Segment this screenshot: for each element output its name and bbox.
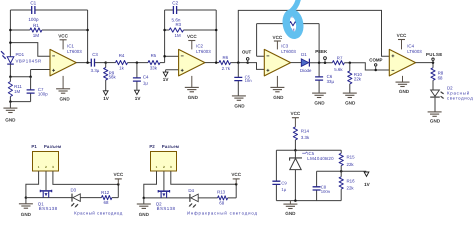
wire stage2 loop right vertical bbox=[215, 10, 217, 63]
connector P1 bbox=[31, 144, 61, 171]
svg-text:56k: 56k bbox=[109, 74, 117, 79]
svg-text:BSS138: BSS138 bbox=[39, 206, 58, 211]
ground IC5 block bbox=[283, 201, 297, 216]
capacitor C4 bbox=[133, 63, 149, 90]
resistor R11 bbox=[8, 77, 22, 102]
wire IC2 inverting input bbox=[165, 55, 179, 57]
shunt reference IC5 LM4040B20 bbox=[290, 150, 335, 200]
op-amp IC3 LT6003 bbox=[264, 44, 296, 76]
diode D1 bbox=[300, 52, 312, 73]
transistor Q2 BSS138 bbox=[156, 190, 176, 211]
wire D2 to ground bbox=[434, 98, 436, 112]
node: rail left bbox=[9, 75, 12, 78]
node: rail right / C7 top bbox=[29, 75, 32, 78]
node: COMP tap bbox=[374, 69, 377, 72]
ground stage1 input bbox=[3, 102, 17, 123]
svg-text:Разъем: Разъем bbox=[44, 144, 61, 149]
ground C5 bbox=[232, 96, 246, 109]
svg-text:LT6003: LT6003 bbox=[67, 49, 82, 54]
LED D3 bbox=[70, 187, 122, 215]
svg-text:C2: C2 bbox=[172, 0, 178, 5]
wire P2 pin2 to Q2 drain bbox=[163, 171, 165, 190]
svg-text:33k: 33k bbox=[150, 65, 158, 70]
svg-text:IC2: IC2 bbox=[196, 44, 203, 49]
ground IC2 bbox=[185, 76, 199, 100]
svg-text:VCC: VCC bbox=[58, 33, 68, 38]
node: OUT junction bbox=[246, 61, 249, 64]
capacitor C9 bbox=[272, 180, 287, 192]
wire IC1 non-inverting input bbox=[31, 70, 50, 77]
LED D2 bbox=[430, 86, 473, 101]
node: Q2 gate/ground junction bbox=[143, 197, 146, 200]
svg-text:GND: GND bbox=[285, 211, 296, 216]
wire D4 to R13 bbox=[198, 197, 217, 199]
power VCC IC4 bbox=[397, 33, 407, 50]
ground P1 bbox=[19, 198, 33, 217]
wire node-B rail bbox=[317, 170, 367, 172]
svg-text:100n: 100n bbox=[321, 189, 331, 194]
wire PD1 anode to rail bbox=[9, 64, 11, 77]
wire P1 pin2 to Q1 drain bbox=[45, 171, 47, 190]
power VCC IC5 block bbox=[291, 111, 301, 127]
wire R7 to COMP corner bbox=[344, 63, 389, 70]
wire node-A rail bbox=[276, 149, 341, 151]
resistor R7 bbox=[332, 56, 344, 72]
svg-text:1k: 1k bbox=[119, 65, 124, 70]
svg-text:1M: 1M bbox=[33, 33, 40, 38]
wire stage2 loop left vertical bbox=[164, 10, 166, 63]
wire stage1 feedback loop top (C1 branch) bbox=[10, 9, 87, 11]
svg-text:R1: R1 bbox=[33, 23, 39, 28]
svg-text:Красный светодиод: Красный светодиод bbox=[74, 210, 123, 215]
svg-text:R15: R15 bbox=[347, 155, 356, 160]
node: PEEK flag tap bbox=[324, 61, 327, 64]
node: R1 left junction bbox=[9, 29, 12, 32]
ground D2 bbox=[428, 112, 442, 124]
svg-text:VCC: VCC bbox=[291, 111, 301, 116]
svg-text:100p: 100p bbox=[38, 92, 48, 97]
wire IC1 inverting input jog bbox=[10, 43, 50, 57]
svg-text:GND: GND bbox=[188, 95, 199, 100]
capacitor C2 bbox=[172, 0, 181, 22]
ground R10 bbox=[343, 93, 357, 106]
transistor Q1 BSS138 bbox=[38, 190, 58, 211]
svg-text:R13: R13 bbox=[217, 190, 226, 195]
wire P1 pin1 to ground bbox=[26, 171, 39, 197]
wire R12 to VCC rail bbox=[112, 184, 118, 197]
ground IC4 bbox=[396, 76, 410, 94]
node: P2 VCC junction bbox=[235, 183, 238, 186]
connector P2 bbox=[149, 144, 179, 171]
net flag PEEK bbox=[315, 49, 328, 63]
wire stage2 loop top (C2 branch) bbox=[165, 9, 217, 11]
capacitor C6 bbox=[315, 63, 334, 93]
svg-text:R3: R3 bbox=[175, 22, 181, 27]
svg-text:D4: D4 bbox=[188, 188, 194, 193]
svg-text:IC3: IC3 bbox=[281, 44, 288, 49]
svg-text:3.3µ: 3.3µ bbox=[91, 68, 100, 73]
svg-text:R4: R4 bbox=[119, 53, 125, 58]
svg-text:3.3k: 3.3k bbox=[301, 135, 310, 140]
wire C3 to R4 bbox=[106, 62, 116, 64]
capacitor C5 bbox=[234, 63, 252, 96]
net label 1V at IC2 + bbox=[163, 72, 170, 82]
net label 1V below C4 bbox=[135, 90, 142, 101]
resistor R1 bbox=[30, 23, 42, 38]
node: R1 right junction bbox=[86, 29, 89, 32]
resistor R3 bbox=[169, 22, 183, 38]
svg-text:68: 68 bbox=[219, 200, 224, 205]
node: IC2 inverting tap bbox=[163, 55, 166, 58]
LED D4 bbox=[187, 188, 258, 216]
ground P2 bbox=[137, 198, 151, 217]
wire IC1 output bbox=[76, 62, 105, 64]
resistor R16 bbox=[339, 171, 355, 200]
svg-text:1µ: 1µ bbox=[143, 80, 148, 85]
annotation: blue marker scribble bbox=[285, 0, 302, 36]
svg-text:R6: R6 bbox=[222, 55, 228, 60]
node: C5 junction bbox=[237, 61, 240, 64]
node: bottom rail left bbox=[9, 100, 12, 103]
wire IC2 non-inverting input bbox=[166, 70, 179, 72]
op-amp IC1 LT6003 bbox=[50, 44, 82, 76]
wire OUT node to IC4 + (top run) bbox=[238, 10, 389, 62]
svg-text:1V: 1V bbox=[364, 182, 371, 187]
svg-text:IC1: IC1 bbox=[67, 44, 74, 49]
svg-text:D3: D3 bbox=[70, 187, 76, 192]
capacitor C1 bbox=[28, 0, 39, 22]
photodiode PD1 bbox=[1, 51, 42, 64]
resistor R8 bbox=[431, 68, 444, 90]
node: PD1 top / feedback junction bbox=[9, 41, 12, 44]
op-amp IC4 LT6003 bbox=[389, 44, 422, 76]
power VCC IC1 bbox=[58, 33, 68, 49]
wire IC3 output to D1 bbox=[291, 62, 302, 64]
svg-text:VCC: VCC bbox=[273, 35, 283, 40]
svg-text:C9: C9 bbox=[281, 180, 287, 185]
wire node-A left vertical / C9 branch bbox=[275, 150, 277, 200]
svg-text:1V: 1V bbox=[163, 77, 170, 82]
node: node B (R15/R16) bbox=[340, 170, 343, 173]
wire bottom rail IC5 block bbox=[276, 200, 341, 202]
svg-text:C4: C4 bbox=[143, 75, 149, 80]
net label 1V below R9 bbox=[103, 91, 110, 101]
svg-text:PD1: PD1 bbox=[16, 52, 25, 57]
ground IC3 bbox=[270, 76, 284, 100]
svg-text:VCC: VCC bbox=[187, 34, 197, 39]
svg-text:GND: GND bbox=[59, 97, 70, 102]
resistor R15 bbox=[339, 150, 355, 171]
svg-text:GND: GND bbox=[345, 101, 356, 106]
node: stage2 output junction bbox=[215, 61, 218, 64]
wire stage3 feedback right vertical bbox=[318, 24, 320, 63]
svg-text:PULSE: PULSE bbox=[426, 52, 443, 57]
resistor R13 bbox=[217, 190, 228, 206]
svg-text:P1: P1 bbox=[31, 144, 37, 149]
svg-text:1M: 1M bbox=[14, 89, 20, 94]
wire stage1 R1 branch bbox=[10, 29, 87, 31]
svg-text:68: 68 bbox=[104, 200, 109, 205]
wire P2 pin1 to ground bbox=[144, 171, 157, 198]
svg-text:GND: GND bbox=[21, 212, 32, 217]
node: PEEK junction (loop) bbox=[318, 61, 321, 64]
wire P1 pin3 to VCC rail bbox=[53, 171, 118, 184]
wire D1 to PEEK node bbox=[309, 62, 332, 64]
svg-text:R14: R14 bbox=[301, 128, 310, 133]
svg-text:GND: GND bbox=[314, 101, 325, 106]
wire R11/C7 top rail bbox=[10, 76, 30, 78]
svg-text:светодиод: светодиод bbox=[447, 95, 473, 100]
power VCC P1 bbox=[113, 172, 123, 184]
svg-text:2.7k: 2.7k bbox=[222, 66, 231, 71]
svg-text:VCC: VCC bbox=[231, 172, 241, 177]
svg-text:P2: P2 bbox=[149, 144, 155, 149]
wire R4 to R5 bbox=[128, 62, 149, 64]
svg-text:COMP: COMP bbox=[369, 58, 382, 63]
capacitor C7 bbox=[27, 77, 49, 102]
svg-text:1V: 1V bbox=[103, 96, 110, 101]
node: R3 right junction bbox=[215, 29, 218, 32]
svg-text:C1: C1 bbox=[30, 0, 36, 5]
svg-text:LT6003: LT6003 bbox=[281, 49, 296, 54]
power VCC IC3 bbox=[273, 35, 283, 50]
svg-text:BSS138: BSS138 bbox=[157, 206, 176, 211]
wire IC3 jog to + input bbox=[248, 63, 265, 70]
wire IC4 output bbox=[416, 63, 433, 68]
svg-text:VCC: VCC bbox=[397, 33, 407, 38]
resistor R6 bbox=[219, 55, 231, 71]
resistor R9 bbox=[104, 63, 117, 91]
wire P2 pin3 to VCC rail bbox=[171, 171, 236, 184]
wire stage1 loop right vertical bbox=[87, 10, 89, 63]
svg-text:GND: GND bbox=[273, 95, 284, 100]
power VCC P2 bbox=[231, 172, 241, 184]
node: R10 junction bbox=[349, 61, 352, 64]
svg-text:1µ: 1µ bbox=[281, 187, 286, 192]
ground C6 bbox=[312, 93, 326, 106]
svg-text:22k: 22k bbox=[347, 185, 355, 190]
node: C3/R9 junction bbox=[104, 61, 107, 64]
wire Q1 gate/source row bbox=[26, 197, 72, 199]
svg-text:22k: 22k bbox=[354, 77, 362, 82]
svg-text:68: 68 bbox=[438, 75, 443, 80]
capacitor C8 bbox=[313, 171, 331, 200]
node: bottom rail / IC5 anode bbox=[294, 199, 297, 202]
svg-text:1M: 1M bbox=[175, 33, 181, 38]
svg-text:22k: 22k bbox=[347, 162, 355, 167]
svg-text:33µ: 33µ bbox=[327, 79, 335, 84]
svg-text:GND: GND bbox=[234, 103, 245, 108]
node: P1 VCC junction bbox=[117, 183, 120, 186]
node: Q1 gate/ground junction bbox=[25, 196, 28, 199]
resistor R10 bbox=[348, 63, 363, 93]
node: node A (R14/IC5) bbox=[294, 149, 297, 152]
node: PULSE junction bbox=[432, 61, 435, 64]
svg-text:Разъем: Разъем bbox=[162, 144, 179, 149]
svg-text:Diode: Diode bbox=[300, 68, 312, 73]
resistor R2 bbox=[285, 13, 300, 32]
svg-text:1V: 1V bbox=[135, 96, 142, 101]
svg-text:C3: C3 bbox=[92, 52, 98, 57]
svg-text:Инфракрасный светодиод: Инфракрасный светодиод bbox=[187, 211, 258, 216]
svg-text:100p: 100p bbox=[28, 17, 39, 22]
wire R5 to stage2 bbox=[160, 62, 165, 64]
wire stage3 feedback left vertical bbox=[257, 24, 265, 57]
svg-text:LM4040B20: LM4040B20 bbox=[307, 156, 334, 161]
svg-text:GND: GND bbox=[430, 118, 441, 123]
net flag COMP bbox=[369, 58, 382, 70]
svg-text:R16: R16 bbox=[347, 179, 356, 184]
ground IC1 bbox=[56, 76, 70, 102]
resistor R4 bbox=[116, 53, 128, 70]
wire R11/C7 bottom rail bbox=[10, 101, 30, 103]
svg-text:R5: R5 bbox=[151, 53, 157, 58]
net flag OUT bbox=[242, 50, 252, 63]
wire R6 to OUT node bbox=[231, 62, 248, 64]
svg-text:VCC: VCC bbox=[113, 172, 123, 177]
svg-text:10n: 10n bbox=[245, 78, 253, 83]
wire R13 to VCC rail bbox=[228, 184, 237, 198]
wire Q2 gate/source row bbox=[144, 197, 190, 199]
wire stage3 feedback top (R2 branch) bbox=[257, 23, 320, 25]
node: C4 junction bbox=[136, 61, 139, 64]
svg-text:R7: R7 bbox=[337, 56, 343, 61]
svg-text:PEEK: PEEK bbox=[315, 49, 328, 54]
svg-text:GND: GND bbox=[399, 89, 410, 94]
wire D3 to R12 bbox=[80, 197, 101, 199]
svg-text:LT6003: LT6003 bbox=[407, 49, 422, 54]
svg-text:GND: GND bbox=[139, 212, 150, 217]
svg-text:R12: R12 bbox=[101, 190, 110, 195]
wire stage2 R3 branch bbox=[165, 29, 217, 31]
wire IC2 output bbox=[205, 62, 219, 64]
svg-text:OUT: OUT bbox=[242, 50, 252, 55]
resistor R14 bbox=[293, 127, 310, 150]
svg-text:LT6003: LT6003 bbox=[196, 49, 211, 54]
svg-text:IC4: IC4 bbox=[407, 44, 414, 49]
net flag PULSE bbox=[426, 52, 443, 63]
wire stage1 loop left vertical bbox=[9, 10, 11, 57]
resistor R5 bbox=[148, 53, 160, 70]
op-amp IC2 LT6003 bbox=[179, 44, 212, 76]
power VCC IC2 bbox=[187, 34, 197, 49]
svg-text:D1: D1 bbox=[301, 52, 307, 57]
resistor R12 bbox=[101, 190, 112, 205]
net label 1V output bbox=[364, 172, 371, 187]
svg-text:VBP104SR: VBP104SR bbox=[16, 58, 42, 63]
svg-text:5.6k: 5.6k bbox=[334, 67, 343, 72]
node: R3 left junction bbox=[163, 29, 166, 32]
capacitor C3 bbox=[91, 52, 100, 73]
node: IC1 output / feedback bbox=[86, 61, 89, 64]
svg-text:GND: GND bbox=[5, 118, 16, 123]
